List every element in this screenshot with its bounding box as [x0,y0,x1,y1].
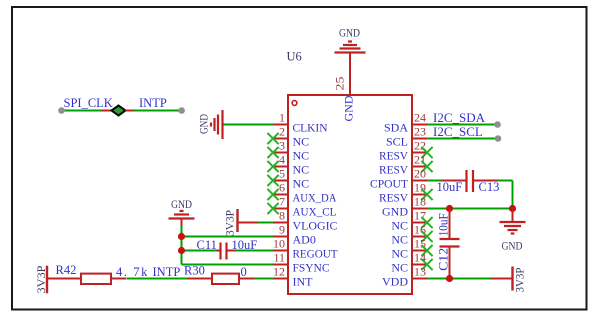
svg-text:INTP: INTP [153,265,181,279]
svg-text:8: 8 [279,209,285,223]
svg-text:INTP: INTP [139,96,167,110]
svg-text:20: 20 [414,167,426,181]
svg-text:24: 24 [414,111,426,125]
svg-text:GND: GND [502,240,523,252]
svg-text:GND: GND [382,205,408,219]
svg-text:5: 5 [279,167,285,181]
svg-text:NC: NC [293,135,310,149]
svg-text:RESV: RESV [379,149,408,163]
svg-text:FSYNC: FSYNC [293,261,330,275]
svg-text:4: 4 [279,153,285,167]
svg-text:SDA: SDA [384,121,408,135]
svg-text:U6: U6 [287,50,302,64]
svg-text:C11: C11 [197,238,217,252]
svg-text:3V3P: 3V3P [515,268,527,293]
svg-text:SCL: SCL [386,135,408,149]
svg-text:23: 23 [414,125,426,139]
svg-text:1: 1 [279,111,285,125]
svg-text:NC: NC [293,177,310,191]
svg-text:3: 3 [279,139,285,153]
svg-text:10uF: 10uF [437,180,463,194]
svg-text:18: 18 [414,195,426,209]
svg-text:GND: GND [342,95,356,121]
svg-text:12: 12 [273,265,285,279]
svg-text:GND: GND [339,28,360,40]
svg-text:11: 11 [273,251,285,265]
svg-text:NC: NC [391,261,408,275]
svg-text:C12: C12 [437,248,451,271]
svg-text:2: 2 [279,125,285,139]
svg-text:GND: GND [199,114,211,134]
svg-text:CLKIN: CLKIN [293,121,328,135]
svg-text:VLOGIC: VLOGIC [293,219,338,233]
svg-text:I2C_SCL: I2C_SCL [433,124,483,139]
svg-text:NC: NC [391,219,408,233]
svg-text:C13: C13 [479,180,500,194]
svg-text:25: 25 [333,77,347,91]
svg-text:7: 7 [279,195,285,209]
svg-text:REGOUT: REGOUT [293,247,339,261]
svg-text:CPOUT: CPOUT [370,177,409,191]
svg-text:9: 9 [279,223,285,237]
svg-text:I2C_SDA: I2C_SDA [433,110,486,125]
svg-text:R30: R30 [184,264,205,278]
svg-text:NC: NC [391,247,408,261]
svg-text:NC: NC [391,233,408,247]
svg-text:AUX_DA: AUX_DA [293,191,337,205]
svg-text:3V3P: 3V3P [36,266,48,294]
svg-text:13: 13 [414,265,426,279]
svg-text:3V3P: 3V3P [225,210,237,236]
svg-text:6: 6 [279,181,285,195]
svg-text:R42: R42 [56,263,77,277]
svg-text:10: 10 [273,237,285,251]
svg-text:10uF: 10uF [437,213,451,236]
svg-text:RESV: RESV [379,191,408,205]
svg-text:4. 7k: 4. 7k [116,265,149,279]
svg-text:0: 0 [241,265,247,279]
svg-text:RESV: RESV [379,163,408,177]
svg-text:GND: GND [171,199,192,211]
svg-text:AD0: AD0 [293,233,316,247]
svg-text:NC: NC [293,149,310,163]
svg-text:INT: INT [293,275,314,289]
svg-text:10uF: 10uF [232,238,258,252]
svg-text:SPI_CLK: SPI_CLK [64,96,113,110]
svg-text:VDD: VDD [382,275,408,289]
svg-text:NC: NC [293,163,310,177]
svg-text:AUX_CL: AUX_CL [293,205,337,219]
